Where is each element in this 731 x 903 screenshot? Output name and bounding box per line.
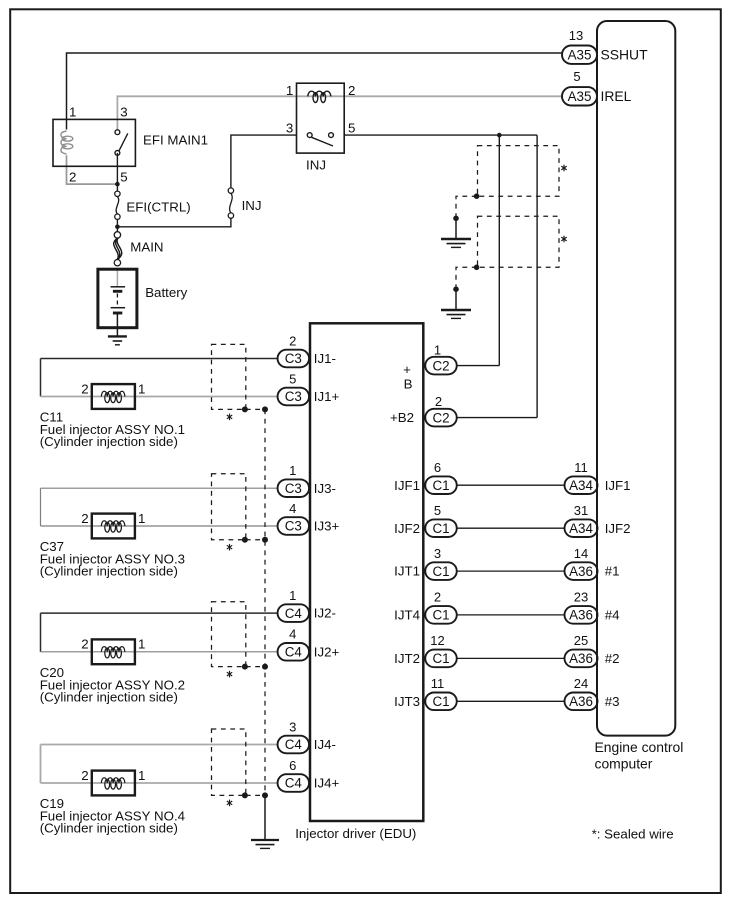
svg-text:EFI(CTRL): EFI(CTRL): [126, 200, 190, 215]
svg-text:EFI MAIN1: EFI MAIN1: [143, 133, 208, 148]
connector A35 IREL: [562, 87, 597, 105]
battery cells: [111, 286, 126, 288]
ground drain bus: [251, 839, 279, 841]
drain bus ground lead: [264, 795, 266, 839]
svg-text:2: 2: [81, 511, 88, 526]
connector C1 IJF2: [425, 519, 457, 537]
asterisk C11: [229, 414, 231, 421]
wire: C11 minus lead: [41, 358, 278, 360]
connector C2 +B2: [425, 409, 457, 427]
wire: C19 loop vertical: [40, 745, 42, 784]
asterisk C19: [229, 800, 231, 807]
fuel injector C37 box: [92, 514, 135, 539]
svg-text:C1: C1: [432, 564, 449, 579]
svg-text:IJT3: IJT3: [394, 694, 420, 709]
svg-text:2: 2: [435, 394, 442, 409]
svg-text:2: 2: [81, 637, 88, 652]
ground shield 2: [455, 289, 457, 309]
svg-text:3: 3: [434, 546, 441, 561]
svg-text:#2: #2: [605, 651, 620, 666]
wire: C2 pin 1 to B+: [457, 365, 499, 367]
svg-text:IJ2-: IJ2-: [314, 606, 336, 621]
relay EFI MAIN1 switch: [115, 130, 120, 135]
wire: C37 loop vertical: [40, 488, 42, 526]
wire: C19 plus lead: [41, 782, 278, 784]
connector C4 IJ2+: [278, 643, 310, 661]
svg-text:1: 1: [138, 637, 145, 652]
svg-text:1: 1: [138, 768, 145, 783]
svg-text:#3: #3: [605, 694, 620, 709]
svg-text:C3: C3: [285, 351, 302, 366]
connector C3 IJ3-: [278, 479, 310, 497]
connector C4 IJ2-: [278, 604, 310, 622]
sealed wire shield box 2: [478, 216, 560, 267]
wire: C20 plus lead: [41, 651, 278, 653]
svg-text:INJ: INJ: [306, 157, 326, 172]
fuse INJ: [228, 188, 233, 193]
svg-text:B: B: [404, 377, 413, 392]
wire: feed to C2 pin 2: [536, 135, 538, 418]
svg-text:6: 6: [289, 758, 296, 773]
svg-text:A36: A36: [569, 564, 593, 579]
svg-text:4: 4: [289, 627, 296, 642]
shield 2 drain: [456, 267, 477, 289]
wire: IJT3 row: [458, 700, 565, 702]
svg-text:IJT4: IJT4: [394, 608, 420, 623]
connector C1 IJF1: [425, 476, 457, 494]
svg-text:2: 2: [289, 333, 296, 348]
connector A36 #2: [565, 650, 598, 668]
wire: INJ relay pin 5 to B+ feeds: [344, 134, 537, 136]
wire: C2 pin 2 to B+: [457, 417, 537, 419]
connector A34 IJF1: [565, 476, 598, 494]
svg-text:A36: A36: [569, 608, 593, 623]
svg-text:C1: C1: [432, 608, 449, 623]
connector C3 IJ1+: [278, 388, 310, 406]
svg-text:4: 4: [289, 501, 296, 516]
junction B+ tap: [497, 133, 502, 138]
fuel injector C19 coil: [101, 778, 125, 783]
svg-text:11: 11: [574, 460, 588, 475]
svg-text:C3: C3: [285, 519, 302, 534]
shield C37 drain: [246, 539, 265, 541]
svg-text:A34: A34: [569, 521, 593, 536]
svg-text:*: Sealed wire: *: Sealed wire: [592, 827, 674, 842]
connector C2 +B: [425, 357, 457, 375]
svg-text:Injector driver (EDU): Injector driver (EDU): [295, 826, 416, 841]
svg-text:25: 25: [574, 633, 588, 648]
svg-text:C3: C3: [285, 389, 302, 404]
battery box: [98, 269, 137, 328]
relay EFI MAIN1 coil: [61, 131, 67, 154]
wire: INJ relay pin 3 to INJ fuse: [231, 135, 297, 188]
wire: INJ fuse to main feed: [117, 218, 230, 227]
connector C1 IJT4: [425, 606, 457, 624]
connector C1 IJT1: [425, 562, 457, 580]
svg-text:MAIN: MAIN: [130, 240, 163, 255]
wire: C20 minus lead: [41, 612, 278, 614]
svg-text:C4: C4: [285, 776, 303, 791]
connector C1 IJT3: [425, 693, 457, 711]
wire: SSHUT to EFI MAIN1 pin 1: [67, 53, 563, 130]
sealed wire shield box C20: [212, 602, 246, 667]
svg-text:C1: C1: [432, 521, 449, 536]
injector driver EDU box: [310, 323, 423, 821]
svg-text:IJT1: IJT1: [394, 564, 420, 579]
svg-text:5: 5: [120, 170, 127, 185]
svg-text:11: 11: [431, 676, 445, 691]
svg-text:C2: C2: [432, 358, 449, 373]
svg-text:5: 5: [573, 69, 580, 84]
relay INJ switch: [307, 133, 312, 138]
svg-text:C1: C1: [432, 651, 449, 666]
svg-text:SSHUT: SSHUT: [601, 47, 649, 63]
svg-text:2: 2: [69, 170, 76, 185]
junction INJ fuse tap: [115, 225, 120, 230]
wire: feed to C2 pin 1: [498, 135, 500, 366]
svg-text:IJT2: IJT2: [394, 651, 420, 666]
connector A34 IJF2: [565, 519, 598, 537]
wire: EFI MAIN1 pin 5 down to battery: [116, 153, 118, 191]
svg-text:3: 3: [289, 719, 296, 734]
asterisk C37: [229, 544, 231, 551]
relay INJ box: [297, 83, 345, 153]
svg-text:5: 5: [289, 371, 296, 386]
sealed wire drain bus: [264, 409, 266, 795]
svg-text:1: 1: [289, 588, 296, 603]
svg-text:1: 1: [289, 463, 296, 478]
svg-text:#4: #4: [605, 608, 620, 623]
fuel injector C20 coil: [101, 647, 125, 652]
fuel injector C19 box: [92, 771, 135, 796]
svg-text:1: 1: [138, 511, 145, 526]
svg-text:(Cylinder injection side): (Cylinder injection side): [40, 564, 178, 579]
svg-text:C2: C2: [432, 410, 449, 425]
svg-text:+B2: +B2: [390, 410, 414, 425]
fuel injector C11 box: [92, 384, 135, 409]
svg-text:2: 2: [81, 768, 88, 783]
engine control computer box: [597, 21, 675, 736]
svg-text:#1: #1: [605, 564, 620, 579]
svg-text:computer: computer: [595, 755, 653, 771]
svg-text:Engine control: Engine control: [595, 739, 684, 755]
relay INJ coil: [308, 91, 331, 96]
svg-text:5: 5: [348, 120, 355, 135]
wire: C19 minus lead: [41, 744, 278, 746]
sealed wire shield box C19: [212, 729, 246, 795]
connector C4 IJ4-: [278, 736, 310, 754]
svg-text:13: 13: [569, 28, 583, 43]
connector A36 #4: [565, 606, 598, 624]
svg-text:IREL: IREL: [601, 88, 632, 104]
wire: C37 plus lead: [41, 525, 278, 527]
wire: IJF1 row: [458, 484, 565, 486]
svg-text:C4: C4: [285, 737, 303, 752]
wire: C20 loop vertical: [40, 613, 42, 652]
svg-text:3: 3: [120, 104, 127, 119]
svg-text:IJ1-: IJ1-: [314, 351, 336, 366]
wire: C11 plus lead: [41, 396, 278, 398]
svg-text:IJF1: IJF1: [605, 478, 631, 493]
svg-text:+: +: [403, 362, 411, 377]
wire: fuse to fusible link: [116, 219, 118, 232]
svg-text:IJF2: IJF2: [605, 521, 631, 536]
sealed wire shield box C11: [212, 344, 246, 409]
asterisk 2: [563, 236, 565, 243]
asterisk C20: [229, 671, 231, 678]
connector A35 SSHUT: [562, 46, 597, 64]
svg-text:3: 3: [286, 120, 293, 135]
svg-text:24: 24: [574, 676, 588, 691]
svg-text:A35: A35: [568, 47, 592, 62]
fuel injector C20 box: [92, 639, 135, 664]
asterisk 1: [563, 165, 565, 172]
sealed wire shield box C37: [212, 474, 246, 540]
svg-text:IJ2+: IJ2+: [314, 644, 340, 659]
svg-text:1: 1: [138, 381, 145, 396]
svg-text:12: 12: [430, 633, 444, 648]
svg-text:C1: C1: [432, 478, 449, 493]
svg-text:IJ1+: IJ1+: [314, 389, 340, 404]
wire: IJF2 row: [458, 527, 565, 529]
fuel injector C11 coil: [101, 391, 125, 396]
wire: IJT1 row: [458, 570, 565, 572]
svg-text:(Cylinder injection side): (Cylinder injection side): [40, 821, 178, 836]
svg-text:A36: A36: [569, 651, 593, 666]
shield C19 drain: [246, 794, 265, 796]
svg-text:IJ4-: IJ4-: [314, 737, 336, 752]
svg-text:INJ: INJ: [242, 198, 262, 213]
relay EFI MAIN1 box: [53, 119, 135, 166]
svg-text:A34: A34: [569, 478, 593, 493]
svg-text:IJF1: IJF1: [394, 478, 420, 493]
svg-text:14: 14: [574, 546, 588, 561]
junction relay pins 2-5: [115, 182, 120, 187]
connector C4 IJ4+: [278, 774, 310, 792]
wire: EFI MAIN1 pin 3 to IREL (gray): [117, 96, 562, 131]
wire: EFI MAIN1 coil pin 2 loop (gray): [67, 155, 118, 184]
shield C20 drain: [246, 666, 265, 668]
svg-text:IJF2: IJF2: [394, 521, 420, 536]
sealed wire shield box 1: [478, 146, 560, 197]
svg-text:1: 1: [286, 83, 293, 98]
ground shield 1: [455, 218, 457, 238]
svg-text:IJ4+: IJ4+: [314, 776, 340, 791]
svg-text:2: 2: [348, 83, 355, 98]
shield 1 drain: [456, 196, 477, 218]
connector A36 #3: [565, 693, 598, 711]
svg-text:IJ3+: IJ3+: [314, 519, 340, 534]
svg-text:(Cylinder injection side): (Cylinder injection side): [40, 689, 178, 704]
wire: C11 loop vertical: [40, 359, 42, 397]
svg-text:2: 2: [81, 381, 88, 396]
connector A36 #1: [565, 562, 598, 580]
svg-text:(Cylinder injection side): (Cylinder injection side): [40, 434, 178, 449]
wire: C37 minus lead: [41, 487, 278, 489]
wire: IJT4 row: [458, 614, 565, 616]
svg-text:2: 2: [434, 590, 441, 605]
svg-text:C3: C3: [285, 481, 302, 496]
wire: battery positive lead (gray): [116, 269, 118, 287]
fusible link MAIN: [114, 232, 120, 238]
shield C11 drain: [246, 408, 265, 410]
svg-text:A35: A35: [568, 89, 592, 104]
fuel injector C37 coil: [101, 521, 125, 526]
svg-text:5: 5: [434, 503, 441, 518]
wire: IJT2 row: [458, 657, 565, 659]
svg-text:C4: C4: [285, 606, 303, 621]
connector C3 IJ3+: [278, 517, 310, 535]
svg-text:Battery: Battery: [145, 285, 187, 300]
svg-text:6: 6: [434, 460, 441, 475]
svg-text:C1: C1: [432, 694, 449, 709]
svg-text:31: 31: [574, 503, 588, 518]
svg-text:23: 23: [574, 590, 588, 605]
battery ground: [116, 328, 118, 337]
svg-text:IJ3-: IJ3-: [314, 481, 336, 496]
connector C1 IJT2: [425, 650, 457, 668]
fuse EFI(CTRL): [115, 191, 120, 196]
connector C3 IJ1-: [278, 350, 310, 368]
svg-text:A36: A36: [569, 694, 593, 709]
svg-text:1: 1: [69, 104, 76, 119]
svg-text:1: 1: [434, 342, 441, 357]
svg-text:C4: C4: [285, 645, 303, 660]
